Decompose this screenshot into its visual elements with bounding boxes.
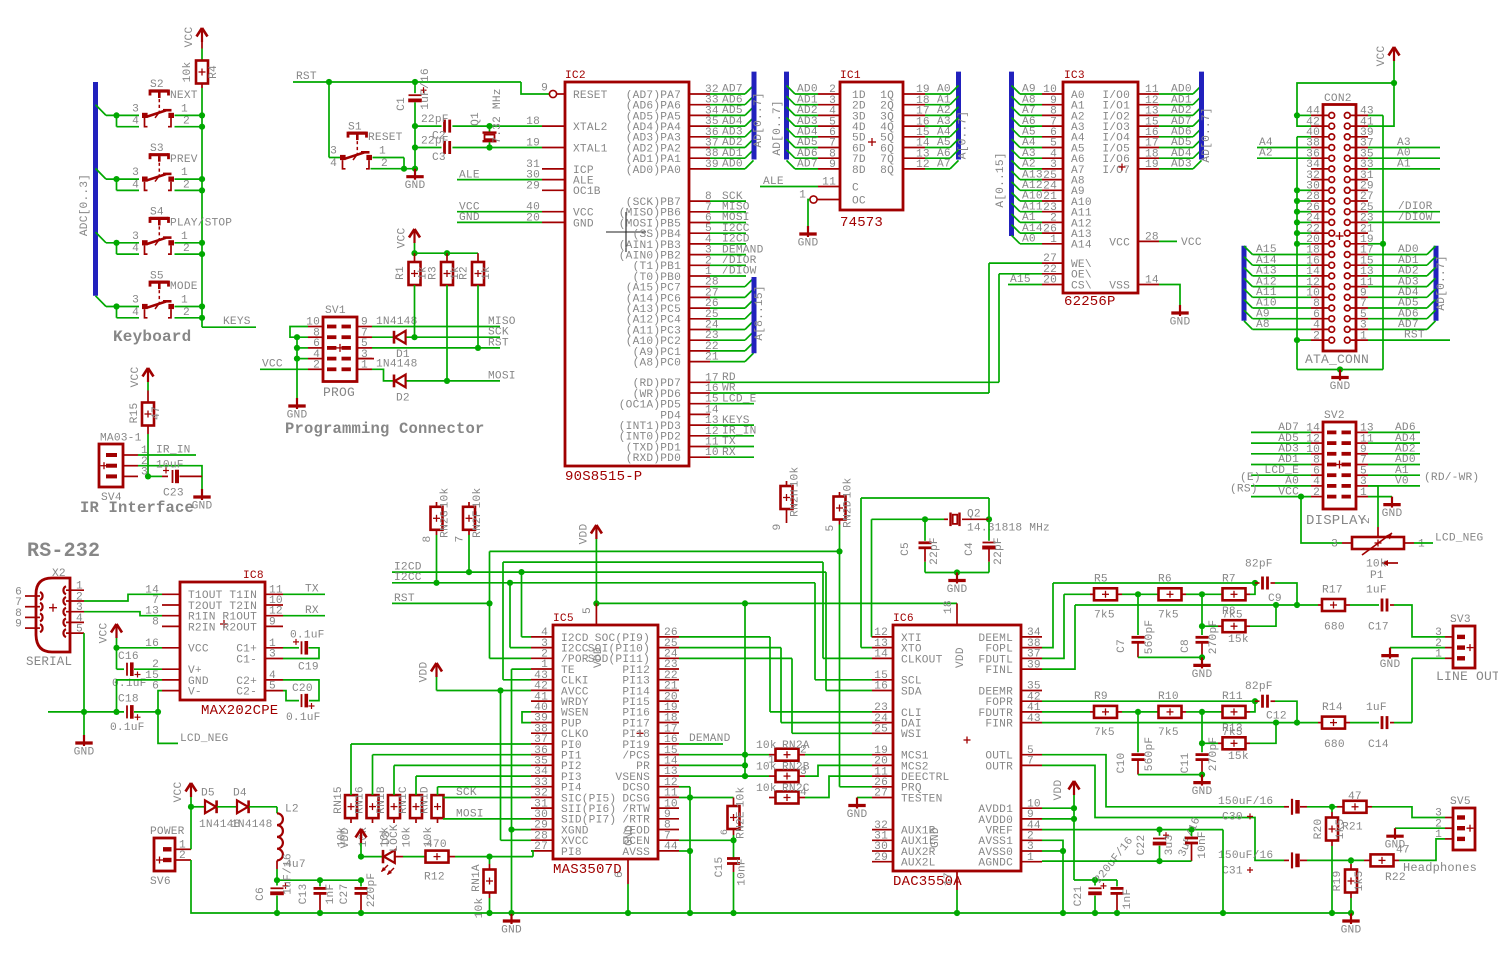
svg-text:22pF: 22pF — [929, 537, 941, 565]
svg-text:C15: C15 — [714, 857, 726, 878]
pin IC3 18 AD4 — [1138, 157, 1159, 159]
pin IC6 9 AVDD0 — [1021, 818, 1042, 820]
svg-text:3: 3 — [132, 104, 139, 116]
capacitor C27 220pF — [360, 880, 362, 886]
pin IC3 1 A0 — [1012, 235, 1021, 244]
svg-text:74573: 74573 — [840, 215, 883, 231]
svg-text:RN2F: RN2F — [472, 510, 484, 538]
svg-text:3: 3 — [330, 146, 337, 158]
pin IC3 12 AD1 — [1138, 104, 1159, 106]
pin CON2 17 — [1351, 254, 1368, 256]
resistor RN1C pullup PI3 — [410, 795, 422, 818]
pin CON2 3 — [1351, 328, 1368, 330]
pin CON2 21 — [1351, 232, 1368, 234]
svg-text:IC3: IC3 — [1064, 70, 1085, 82]
pin IC8 12 — [265, 615, 283, 617]
svg-text:270pF: 270pF — [1208, 620, 1220, 655]
svg-text:LCD_NEG: LCD_NEG — [1435, 532, 1483, 544]
svg-text:2: 2 — [1361, 517, 1373, 524]
svg-text:VCC: VCC — [397, 228, 409, 249]
svg-text:470: 470 — [426, 839, 447, 851]
svg-text:GND: GND — [1192, 786, 1213, 798]
svg-text:VCC: VCC — [1109, 237, 1130, 249]
pin IC6 1 AGNDC — [1021, 861, 1042, 863]
svg-text:GND: GND — [1330, 381, 1351, 393]
svg-text:9: 9 — [772, 524, 784, 531]
svg-text:I/O7: I/O7 — [1102, 165, 1130, 177]
svg-text:1uF: 1uF — [1366, 702, 1387, 714]
pin IC5 39 PUP — [531, 722, 553, 724]
pin CON2 33 — [1351, 168, 1368, 170]
net label LCD_NEG (P1) — [1414, 542, 1433, 544]
pin IC1 4 AD2 — [787, 107, 796, 116]
svg-text:62256P: 62256P — [1064, 294, 1116, 310]
pin IC3 17 AD5 — [1138, 147, 1159, 149]
pin IC6 41 FDUTR — [1021, 711, 1042, 713]
wire RN2G to I2CC — [436, 535, 438, 583]
capacitor C18 — [126, 705, 128, 718]
resistor R2 — [477, 253, 479, 262]
svg-text:Programming Connector: Programming Connector — [285, 420, 485, 438]
pin IC1 8 AD6 — [787, 150, 796, 159]
ground (IC1 OC) — [807, 226, 809, 237]
wire pullup tops — [415, 252, 479, 254]
wire PRQ from RST rail — [836, 548, 842, 554]
svg-text:R13: R13 — [1222, 723, 1243, 735]
wire I2CD rail — [392, 571, 826, 573]
svg-text:R1: R1 — [395, 266, 407, 280]
bus A[0..15] left of IC3 — [1009, 72, 1014, 236]
capacitor C23 10uF — [148, 475, 162, 477]
wire S1 pins to GND node — [373, 157, 405, 159]
wire SCK — [407, 336, 501, 338]
net label RX (IC8) — [283, 615, 325, 617]
pin IC3 24 A12 — [1012, 182, 1021, 191]
svg-text:CON2: CON2 — [1324, 93, 1352, 105]
pins IC2 PA7-PA0 with bus entries — [689, 93, 710, 95]
svg-text:(RXD)PD0: (RXD)PD0 — [626, 453, 681, 465]
wire R12 to PI8 — [455, 856, 533, 858]
ic IC8 MAX202CPE — [180, 582, 265, 700]
capacitor C4 22pF — [988, 519, 990, 541]
pin IC5 38 CLKO — [531, 732, 553, 734]
svg-text:A1: A1 — [1397, 158, 1411, 170]
svg-text:1uF: 1uF — [1366, 585, 1387, 597]
svg-text:3: 3 — [132, 167, 139, 179]
pin CON2 26 — [1311, 211, 1328, 213]
svg-text:R7: R7 — [1222, 574, 1236, 586]
pin CON2 42 — [1311, 125, 1328, 127]
pin IC6 19 MCS1 — [872, 754, 893, 756]
wire C1 to GND node — [414, 148, 416, 169]
svg-text:RN2G: RN2G — [440, 510, 452, 538]
pin IC6 32 AUX1R — [872, 829, 893, 831]
pin IC5 12 DCSO — [658, 786, 679, 788]
net label TX (IC8) — [283, 593, 325, 595]
svg-text:R2: R2 — [459, 266, 471, 280]
svg-text:2: 2 — [313, 360, 320, 372]
power symbol VCC (CON2) — [1389, 47, 1395, 56]
wire I2CC rail — [392, 582, 815, 584]
svg-text:82pF: 82pF — [1245, 681, 1273, 693]
svg-text:680: 680 — [1324, 739, 1345, 751]
svg-text:GND: GND — [930, 827, 942, 848]
resistor RN2B — [745, 775, 769, 777]
svg-text:7: 7 — [455, 536, 467, 543]
pin IC8 9 — [265, 625, 283, 627]
svg-text:SV5: SV5 — [1450, 796, 1471, 808]
pin IC1 6 AD4 — [787, 128, 796, 137]
svg-text:PLAY/STOP: PLAY/STOP — [170, 218, 232, 230]
wire AVDD1/AVDD0 — [1042, 807, 1074, 809]
diode D4 1N4148 — [237, 800, 248, 813]
crystal Q2 14.31818 MHz — [949, 513, 951, 527]
svg-text:10k: 10k — [756, 740, 777, 752]
ground (headphone) — [1350, 913, 1352, 924]
pin SV2 13 — [1356, 431, 1368, 433]
wire VCC to IC8 pin16 — [117, 647, 163, 649]
capacitor C12 82pF — [1255, 700, 1260, 702]
svg-text:R12: R12 — [424, 872, 445, 884]
svg-text:S3: S3 — [150, 143, 164, 155]
svg-text:R2IN: R2IN — [188, 622, 216, 634]
pin IC5 22 PI13 — [658, 679, 679, 681]
pin CON2 27 — [1351, 200, 1368, 202]
svg-text:R5: R5 — [1094, 574, 1108, 586]
svg-text:10k: 10k — [736, 787, 748, 808]
resistor RN2H — [781, 486, 793, 509]
svg-text:7k5: 7k5 — [1158, 727, 1179, 739]
svg-text:AD7: AD7 — [797, 159, 818, 171]
power symbol VDD (LED) — [356, 829, 362, 838]
svg-text:VDD: VDD — [419, 662, 431, 683]
svg-text:29: 29 — [874, 852, 888, 864]
pin SV2 5 — [1356, 474, 1368, 476]
ground (Q2) — [956, 573, 958, 584]
svg-text:R3: R3 — [428, 266, 440, 280]
svg-text:10k: 10k — [1366, 559, 1387, 571]
svg-text:GND: GND — [1385, 840, 1406, 852]
pin IC5 15 /PCS — [658, 754, 679, 756]
switch S3 PREV — [132, 143, 198, 192]
svg-text:1: 1 — [1435, 829, 1442, 841]
svg-text:MAS3507D: MAS3507D — [553, 862, 622, 878]
pin IC8 4 — [265, 679, 283, 681]
wire RST to /POR — [392, 602, 490, 604]
wire FDUTL riser — [1042, 594, 1064, 658]
wire RN2A to MCS1 — [805, 754, 872, 756]
pin IC3 OE 22 — [1042, 273, 1063, 275]
pin IC5 27 PI8 — [531, 850, 553, 852]
svg-text:1N4148: 1N4148 — [376, 359, 417, 371]
pin IC3 VSS 14 — [1138, 284, 1159, 286]
svg-text:ATA_CONN: ATA_CONN — [1305, 352, 1369, 367]
switch S1 RESET — [330, 121, 403, 170]
svg-text:9: 9 — [15, 619, 22, 631]
svg-text:16: 16 — [874, 681, 888, 693]
svg-text:C19: C19 — [298, 662, 319, 674]
capacitor C3 — [414, 126, 416, 147]
ic IC3 62256P — [1063, 82, 1138, 293]
wire SOI to DAI — [679, 647, 781, 649]
svg-text:47: 47 — [1348, 791, 1362, 803]
svg-text:DISPLAY: DISPLAY — [1306, 513, 1367, 529]
pin IC5 40 WSEN — [531, 711, 553, 713]
svg-text:0.1uF: 0.1uF — [110, 722, 145, 734]
wire filter gnd (left) — [1138, 656, 1202, 658]
pin IC6 35 DEEMR — [1021, 690, 1042, 692]
pin CON2 38 — [1311, 147, 1328, 149]
wire CON2 gnd bottom — [1297, 369, 1383, 371]
pin IC6 3 AVSS0 — [1021, 850, 1042, 852]
svg-text:SV1: SV1 — [325, 305, 346, 317]
svg-text:7: 7 — [1027, 756, 1034, 768]
svg-text:(A8)PC0: (A8)PC0 — [633, 358, 681, 370]
pin IC6 25 WSI — [872, 732, 893, 734]
svg-text:560pF: 560pF — [1144, 737, 1156, 772]
pin IC6 5 OUTL — [1021, 754, 1042, 756]
pin CON2 32 — [1311, 179, 1328, 181]
svg-text:(AD0)PA0: (AD0)PA0 — [626, 165, 681, 177]
resistor R17 680 — [1318, 604, 1322, 606]
capacitor C13 1nF — [319, 880, 321, 886]
svg-text:2: 2 — [1313, 330, 1320, 342]
resistor R12 470 — [403, 856, 426, 858]
resistor R19 1k5 — [1350, 860, 1352, 864]
wire S4 to keys column — [175, 242, 203, 244]
svg-text:6: 6 — [720, 829, 731, 835]
ground (SV2) — [1391, 497, 1393, 508]
pin IC5 17 PI18 — [658, 732, 679, 734]
capacitor C5 22pF — [924, 519, 926, 541]
svg-text:A7: A7 — [937, 159, 951, 171]
svg-text:MAX202CPE: MAX202CPE — [201, 703, 278, 719]
pin IC1 19 A0 — [903, 93, 925, 95]
svg-text:V0: V0 — [1395, 476, 1409, 488]
svg-text:R17: R17 — [1322, 585, 1343, 597]
svg-text:D2: D2 — [396, 393, 410, 405]
pin IC5 13 VSENS — [658, 775, 679, 777]
pin IC3 13 AD2 — [1138, 114, 1159, 116]
svg-text:IR Interface: IR Interface — [80, 499, 194, 517]
wire CON2 AD4 — [1368, 296, 1427, 298]
svg-text:SERIAL: SERIAL — [26, 655, 72, 669]
pin IC3 11 AD0 — [1138, 93, 1159, 95]
wire S3 to keys column — [175, 178, 203, 180]
svg-text:18: 18 — [526, 116, 540, 128]
pin IC3 CS 20 / net A15 — [1042, 284, 1063, 286]
svg-text:AD[0..7]: AD[0..7] — [1436, 255, 1448, 310]
svg-text:28: 28 — [1145, 231, 1159, 243]
wire V- to LCD_NEG — [158, 691, 178, 744]
potentiometer P1 10k — [1342, 542, 1352, 544]
svg-text:C20: C20 — [292, 683, 313, 695]
resistor R6 7k5 — [1138, 593, 1159, 595]
svg-text:C12: C12 — [1266, 710, 1287, 722]
power symbol VDD (DAC) — [1069, 781, 1075, 790]
svg-text:S1: S1 — [348, 121, 362, 133]
svg-text:MODE: MODE — [170, 281, 198, 293]
pin IC2 RESET 9 — [557, 93, 565, 95]
svg-text:1nF: 1nF — [1122, 889, 1134, 910]
wire CON2 AD2 — [1368, 275, 1427, 277]
svg-text:2: 2 — [179, 850, 186, 862]
wire SV4 pin2 to GND — [138, 466, 202, 489]
svg-text:VCC: VCC — [173, 782, 185, 803]
svg-text:V-: V- — [188, 687, 202, 699]
wire /PCS PR VSENS to VDD — [679, 754, 745, 756]
svg-text:R2OUT: R2OUT — [222, 622, 257, 634]
svg-text:OC1B: OC1B — [573, 186, 601, 198]
resistor RN15 pullup PI0 — [345, 795, 357, 818]
wire CON2 gnd column right — [1368, 114, 1383, 116]
svg-text:GND: GND — [1341, 925, 1362, 937]
pin IC2 40 — [542, 211, 565, 213]
wire OUTR path — [1042, 765, 1284, 860]
resistor R9 7k5 — [1090, 711, 1094, 713]
svg-text:D4: D4 — [233, 788, 247, 800]
wire SV6 pin1 to VCC — [190, 807, 192, 850]
svg-text:GND: GND — [1170, 317, 1191, 329]
wire CON2 A11 — [1244, 289, 1253, 298]
pin IC5 35 PI2 — [531, 764, 553, 766]
wire bus entry for S2 — [96, 105, 107, 116]
wire WR to 62256 WE — [710, 392, 989, 394]
svg-text:MA03-1: MA03-1 — [100, 433, 142, 445]
svg-text:3: 3 — [132, 231, 139, 243]
pin CON2 34 — [1311, 168, 1328, 170]
capacitor C8 270pF — [1201, 626, 1203, 635]
pin IC8 7 — [162, 604, 180, 606]
svg-text:Headphones: Headphones — [1403, 861, 1477, 875]
svg-text:1: 1 — [361, 360, 368, 372]
svg-text:10nF: 10nF — [1197, 831, 1209, 859]
wire CON2 A12 — [1244, 278, 1253, 287]
pin CON2 22 — [1311, 232, 1328, 234]
pin IC6 16 SDA — [872, 690, 893, 692]
svg-text:1: 1 — [379, 146, 386, 158]
svg-text:RN2D: RN2D — [843, 500, 855, 528]
wire FOPL rail to C9 — [1053, 582, 1255, 584]
pin CON2 19 — [1351, 243, 1368, 245]
keyboard bus ADC[0..3] — [93, 82, 98, 296]
svg-text:SV2: SV2 — [1324, 410, 1345, 422]
wire DCSO/DCSG to gnd — [679, 786, 690, 788]
svg-text:5: 5 — [582, 607, 594, 614]
svg-text:A[8..15]: A[8..15] — [754, 285, 766, 340]
connector X2 SERIAL (DB9) — [36, 578, 70, 652]
pin CON2 11 — [1351, 286, 1368, 288]
svg-text:VDD: VDD — [1053, 780, 1065, 801]
pin IC8 14 — [162, 593, 180, 595]
power symbol VCC (IC8) — [111, 624, 117, 633]
pin IC1 C 11 / net ALE — [818, 186, 840, 188]
svg-text:(E): (E) — [1240, 472, 1261, 484]
svg-text:150uF/16: 150uF/16 — [1218, 796, 1273, 808]
pin IC3 10 A9 — [1012, 86, 1021, 95]
svg-text:220pF: 220pF — [366, 873, 378, 908]
svg-text:14: 14 — [1145, 275, 1159, 287]
svg-text:5: 5 — [269, 681, 276, 693]
svg-text:LINE OUT: LINE OUT — [1436, 669, 1498, 684]
wire RN2F to I2CD — [468, 535, 470, 572]
pin IC5 9 /RTR — [658, 818, 679, 820]
svg-text:GND: GND — [1192, 669, 1213, 681]
svg-text:15k: 15k — [1228, 751, 1249, 763]
wire S5 to keys column — [175, 306, 203, 308]
pin IC6 44 VREF — [1021, 829, 1042, 831]
wire R21 to SV5 pin3 — [1372, 807, 1445, 818]
pin SV2 3 — [1356, 485, 1368, 487]
svg-text:8: 8 — [152, 616, 159, 628]
svg-text:1N4148: 1N4148 — [231, 819, 272, 831]
wire CON2 A8 — [1244, 321, 1253, 330]
resistor RN1B pullup PI2 — [388, 795, 400, 818]
svg-text:10k: 10k — [756, 783, 777, 795]
pin IC3 23 A11 — [1012, 203, 1021, 212]
wire XTI loop — [871, 519, 873, 637]
net label RST (CON2) — [1368, 339, 1450, 341]
pin IC3 2 A1 — [1012, 214, 1021, 223]
pin CON2 2 — [1311, 339, 1328, 341]
svg-text:R9: R9 — [1094, 691, 1108, 703]
ground (IC3) — [1179, 305, 1181, 316]
svg-text:C16: C16 — [118, 651, 139, 663]
wire output rail (left) — [1075, 604, 1318, 606]
pin IC6 31 AUX1L — [872, 839, 893, 841]
svg-text:22pF: 22pF — [421, 135, 449, 147]
wire AGNDC rail — [1042, 860, 1192, 862]
wire WE link — [989, 262, 1042, 264]
pin CON2 24 — [1311, 221, 1328, 223]
pin CON2 43 — [1351, 114, 1368, 116]
pin IC1 12 A7 — [903, 168, 925, 170]
capacitor C15 10nF — [733, 840, 735, 858]
svg-text:RS-232: RS-232 — [27, 540, 100, 563]
svg-text:RESET: RESET — [573, 90, 608, 102]
pin IC5 37 PI0 — [531, 743, 553, 745]
diode D5 1N4148 — [191, 806, 205, 808]
svg-text:680: 680 — [1324, 621, 1345, 633]
svg-text:C9: C9 — [1268, 593, 1282, 605]
wire VREF rail — [1042, 829, 1223, 831]
svg-text:GND: GND — [1380, 659, 1401, 671]
svg-text:CS\: CS\ — [1071, 280, 1092, 292]
wire SV5 pin2 gnd — [1395, 827, 1445, 829]
pin IC1 OC 1 — [810, 196, 817, 203]
wire CON2 AD6 — [1368, 318, 1427, 320]
svg-text:R8: R8 — [1222, 606, 1236, 618]
diode D2 — [372, 369, 394, 381]
wire SDA link — [825, 572, 827, 690]
pin IC6 24 DAI — [872, 722, 893, 724]
wire C14 to SV3 pin1 — [1394, 722, 1412, 724]
pin IC6 13 XTO — [872, 647, 893, 649]
svg-text:150uF/16: 150uF/16 — [1218, 850, 1273, 862]
svg-text:FINR: FINR — [985, 719, 1013, 731]
svg-text:AD[0..7]: AD[0..7] — [772, 100, 784, 155]
pin IC8 3 — [265, 658, 283, 660]
svg-text:39: 39 — [1027, 659, 1041, 671]
svg-text:/DIOW: /DIOW — [1398, 212, 1433, 224]
connector CON2 ATA_CONN — [1323, 105, 1356, 352]
svg-text:AD[0..7]: AD[0..7] — [753, 92, 765, 147]
svg-text:GND: GND — [947, 584, 968, 596]
resistor R7 7k5 — [1202, 593, 1223, 595]
wire SV2 pin1 to GND — [1368, 496, 1392, 498]
ground (RS232) — [83, 712, 85, 738]
capacitor C30 150uF/16 — [1284, 806, 1289, 808]
